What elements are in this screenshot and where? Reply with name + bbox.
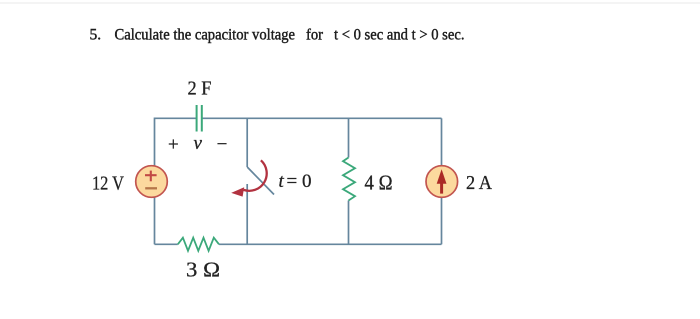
svg-text:= 0: = 0 bbox=[287, 171, 312, 192]
voltage source V1 12V bbox=[136, 166, 168, 198]
capacitor C 2F plates bbox=[197, 105, 202, 132]
problem statement text bbox=[90, 27, 465, 44]
label minus (capacitor polarity) bbox=[217, 134, 228, 155]
label v (capacitor voltage) bbox=[194, 133, 203, 154]
label t = 0 bbox=[279, 171, 312, 192]
svg-text:2 A: 2 A bbox=[466, 172, 493, 194]
label 2 F bbox=[188, 78, 212, 100]
label 12 V bbox=[92, 173, 124, 195]
svg-text:2 F: 2 F bbox=[188, 78, 212, 100]
wire bottom-left segment (to 3-ohm resistor) bbox=[155, 243, 178, 245]
svg-text:3 Ω: 3 Ω bbox=[186, 258, 220, 282]
wire right segment bbox=[441, 118, 443, 244]
wire top-left segment (to capacitor) bbox=[155, 118, 197, 166]
svg-text:5.: 5. bbox=[90, 27, 102, 44]
faint page rule bbox=[0, 2, 700, 4]
svg-text:Calculate the capacitor voltag: Calculate the capacitor voltage for t < … bbox=[115, 27, 465, 44]
resistor R2 4-ohm zigzag bbox=[343, 158, 355, 201]
svg-text:+: + bbox=[168, 135, 179, 156]
resistor R1 3-ohm zigzag bbox=[178, 238, 219, 251]
svg-text:4 Ω: 4 Ω bbox=[365, 171, 393, 195]
label 4 ohm bbox=[365, 171, 393, 195]
wire switch branch upper bbox=[246, 118, 248, 167]
svg-text:12 V: 12 V bbox=[92, 173, 124, 195]
label + (capacitor polarity) bbox=[168, 135, 179, 156]
switch action arrow (red arc) bbox=[231, 160, 267, 196]
wire 4-ohm branch lower bbox=[348, 201, 350, 245]
current source I1 2A bbox=[426, 166, 458, 198]
wire top-right segment (capacitor to top-right corner) bbox=[202, 117, 442, 119]
wire left-lower segment bbox=[154, 197, 156, 244]
wire switch branch lower bbox=[246, 184, 248, 244]
label 3 ohm bbox=[186, 258, 220, 282]
svg-text:−: − bbox=[217, 134, 228, 155]
svg-text:t: t bbox=[279, 171, 285, 192]
svg-text:v: v bbox=[194, 133, 203, 154]
wire bottom segment (3-ohm resistor to bottom-right corner) bbox=[219, 243, 442, 245]
wire 4-ohm branch upper bbox=[348, 118, 350, 157]
label 2 A bbox=[466, 172, 493, 194]
switch blade t=0 bbox=[247, 167, 274, 195]
